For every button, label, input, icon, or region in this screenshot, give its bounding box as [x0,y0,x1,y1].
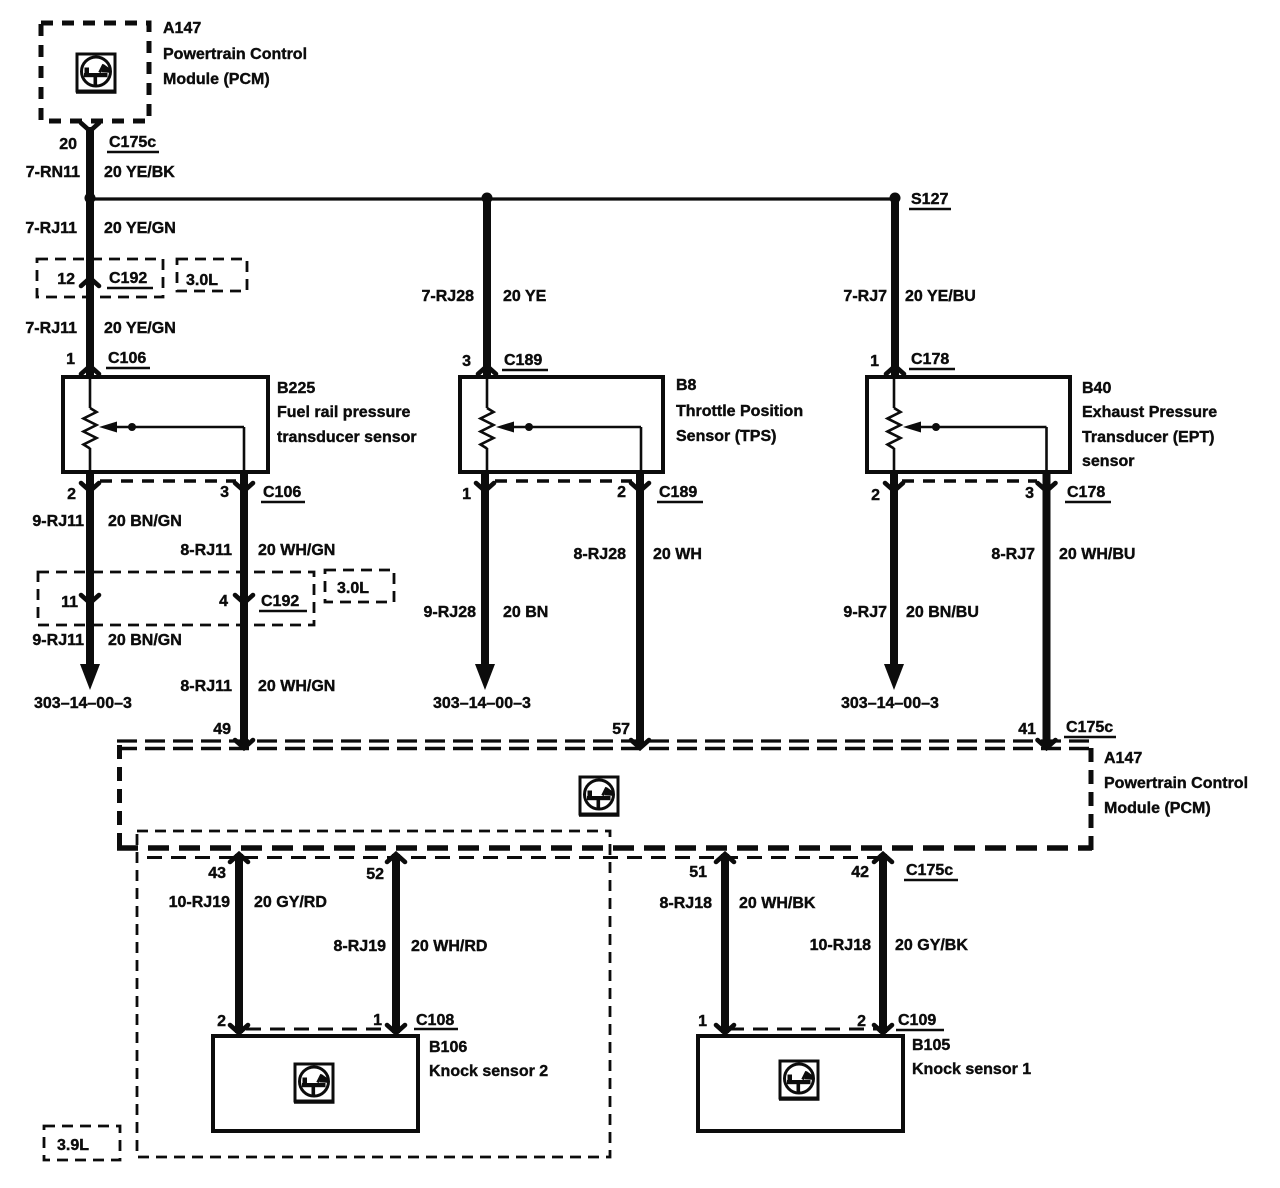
sensor B106 Knock sensor 2 box [213,1036,418,1131]
svg-text:Knock sensor 2: Knock sensor 2 [429,1063,548,1080]
svg-text:B8: B8 [676,377,697,394]
svg-text:3: 3 [1025,485,1034,502]
connector C175c pin 51 arrow (up) [716,854,734,862]
svg-text:9-RJ7: 9-RJ7 [843,604,887,621]
svg-text:1: 1 [66,351,75,368]
svg-text:20 YE/GN: 20 YE/GN [104,220,176,237]
svg-text:2: 2 [67,486,76,503]
svg-text:3: 3 [220,484,229,501]
svg-text:1: 1 [373,1012,382,1029]
svg-text:7-RJ11: 7-RJ11 [25,320,77,337]
connector C109 dashed line [729,1028,880,1031]
B225 internal lead from pin 1 [89,379,92,408]
connector C175c dashed line (lower row) [147,856,884,859]
ground terminal arrow right [884,664,904,690]
ground terminal arrow left [80,664,100,690]
svg-text:B40: B40 [1082,380,1111,397]
svg-text:C106: C106 [263,484,301,501]
svg-text:51: 51 [689,864,707,881]
svg-text:8-RJ11: 8-RJ11 [180,542,232,559]
module A147 Powertrain Control Module (top) [41,23,149,121]
knock sensor 1 component icon [779,1061,820,1099]
connector C178 pin 2 arrow (down) [885,483,903,491]
B40 wiper lead to pin 3 [1045,427,1048,470]
svg-text:20 WH/GN: 20 WH/GN [258,542,335,559]
svg-text:C175c: C175c [906,862,953,879]
connector C189 pin 1 arrow (down) [476,483,494,491]
B225 internal lead to pin 2 [89,448,92,470]
svg-text:8-RJ28: 8-RJ28 [574,546,627,563]
svg-text:C109: C109 [898,1012,936,1029]
svg-text:57: 57 [612,721,630,738]
svg-text:9-RJ11: 9-RJ11 [32,632,84,649]
module A147 Powertrain Control Module (lower) box [117,741,1092,850]
svg-text:S127: S127 [911,191,948,208]
svg-text:10-RJ18: 10-RJ18 [810,937,871,954]
wire 7-RN11 20 YE/BK vertical [86,127,94,198]
svg-text:A147: A147 [1104,750,1142,767]
svg-text:Exhaust Pressure: Exhaust Pressure [1082,404,1217,421]
svg-text:20 WH/BU: 20 WH/BU [1059,546,1135,563]
svg-text:8-RJ18: 8-RJ18 [660,895,713,912]
B8 internal lead to pin 1 [486,448,489,470]
connector C109 pin 1 arrow (down) [716,1025,734,1033]
svg-text:20 YE: 20 YE [503,288,547,305]
svg-text:303–14–00–3: 303–14–00–3 [34,695,132,712]
svg-text:Powertrain Control: Powertrain Control [163,46,307,63]
svg-text:12: 12 [57,271,75,288]
wire 8-RJ18 20 WH/BK [721,854,729,1033]
engine tag 3.0L box (lower) [325,570,394,602]
svg-text:1: 1 [462,486,471,503]
connector C189 dashed line (bottom of B8) [495,479,632,483]
svg-text:B105: B105 [912,1037,950,1054]
B225 wiper lead to pin 3 [243,427,246,470]
svg-text:transducer sensor: transducer sensor [277,429,417,446]
svg-text:C175c: C175c [1066,719,1113,736]
svg-text:C106: C106 [108,350,146,367]
svg-text:1: 1 [698,1013,707,1030]
wire 9-RJ28 20 BN [481,472,489,665]
connector C192 pin 11 arrow (down) [81,595,99,603]
svg-text:8-RJ19: 8-RJ19 [334,938,387,955]
svg-text:20 BN/GN: 20 BN/GN [108,513,182,530]
svg-text:20 WH/GN: 20 WH/GN [258,678,335,695]
connector C108 dashed line [246,1028,396,1031]
svg-text:2: 2 [617,484,626,501]
svg-text:43: 43 [208,865,226,882]
svg-text:3.0L: 3.0L [186,272,218,289]
svg-text:20 BN/GN: 20 BN/GN [108,632,182,649]
wire 9-RJ11 20 BN/GN [86,472,94,665]
svg-text:20 WH: 20 WH [653,546,702,563]
B40 wiper arrow [903,422,921,433]
svg-text:9-RJ11: 9-RJ11 [32,513,84,530]
svg-text:9-RJ28: 9-RJ28 [424,604,477,621]
wire 8-RJ19 20 WH/RD [392,854,400,1033]
svg-text:8-RJ11: 8-RJ11 [180,678,232,695]
pin 57 arrow into PCM (down) [631,740,649,748]
engine tag 3.0L box (upper) [177,259,247,291]
svg-text:C192: C192 [109,270,147,287]
pin 49 arrow into PCM (down) [235,740,253,748]
svg-text:20 GY/RD: 20 GY/RD [254,894,327,911]
svg-text:20 YE/BK: 20 YE/BK [104,164,175,181]
sensor B105 Knock sensor 1 box [698,1036,903,1131]
sensor B225 Fuel rail pressure transducer sensor box [63,377,268,472]
splice junction middle column [482,193,493,204]
connector C192 pin 4 arrow (down) [235,595,253,603]
svg-text:3: 3 [462,353,471,370]
svg-text:C175c: C175c [109,134,156,151]
svg-text:41: 41 [1018,721,1036,738]
svg-text:7-RJ7: 7-RJ7 [843,288,887,305]
svg-text:20 YE/BU: 20 YE/BU [905,288,976,305]
horizontal bus wire from splice to S127 [90,197,895,200]
svg-text:2: 2 [217,1013,226,1030]
svg-text:B106: B106 [429,1039,467,1056]
svg-text:Module (PCM): Module (PCM) [1104,800,1211,817]
svg-text:B225: B225 [277,380,315,397]
PCM component icon (top) [76,54,117,92]
svg-text:Throttle Position: Throttle Position [676,403,803,420]
wire 8-RJ7 20 WH/BU [1043,472,1051,745]
connector C106 pin 3 arrow (down) [235,483,253,491]
svg-text:3.9L: 3.9L [57,1137,89,1154]
connector C192 box (lower, pins 11 and 4) [38,572,314,625]
svg-text:303–14–00–3: 303–14–00–3 [841,695,939,712]
B40 potentiometer resistor element [888,408,901,449]
sensor B40 Exhaust Pressure Transducer box [867,377,1070,472]
wire 10-RJ19 20 GY/RD [235,854,243,1033]
svg-text:A147: A147 [163,20,201,37]
B225 potentiometer resistor element [84,408,97,449]
PCM component icon (lower) [579,777,620,815]
connector C178 pin 3 arrow (down) [1038,483,1056,491]
svg-text:Module (PCM): Module (PCM) [163,71,270,88]
engine group 3.9L dashed box [137,831,610,1157]
svg-text:C178: C178 [911,351,949,368]
svg-text:20 WH/RD: 20 WH/RD [411,938,487,955]
svg-text:20: 20 [59,136,77,153]
connector C108 pin 2 arrow (down) [230,1025,248,1033]
svg-text:20 WH/BK: 20 WH/BK [739,895,816,912]
svg-text:20 BN/BU: 20 BN/BU [906,604,979,621]
connector C106 pin 1 arrow (up) [81,366,99,374]
svg-text:2: 2 [857,1013,866,1030]
engine tag 3.9L label box [44,1126,120,1160]
svg-text:20 GY/BK: 20 GY/BK [895,937,968,954]
svg-text:Powertrain Control: Powertrain Control [1104,775,1248,792]
svg-text:2: 2 [871,487,880,504]
svg-text:C189: C189 [504,352,542,369]
connector C108 pin 1 arrow (down) [387,1025,405,1033]
connector C106 dashed line (bottom of B225) [100,479,236,483]
connector C189 pin 3 arrow (up) [478,366,496,374]
B40 internal lead from pin 1 [893,379,896,408]
connector C192 box (upper, pin 12) [37,259,163,297]
B8 internal lead from pin 3 [486,379,489,408]
pin 41 arrow into PCM (down) [1038,740,1056,748]
svg-text:20 BN: 20 BN [503,604,548,621]
B8 wiper lead to pin 2 [640,427,643,470]
wire 10-RJ18 20 GY/BK [879,854,887,1033]
svg-text:sensor: sensor [1082,453,1134,470]
B40 internal lead to pin 2 [893,448,896,470]
svg-text:7-RJ11: 7-RJ11 [25,220,77,237]
svg-text:52: 52 [366,866,384,883]
connector C175c pin 43 arrow (up) [230,854,248,862]
svg-text:Knock sensor 1: Knock sensor 1 [912,1061,1031,1078]
svg-text:49: 49 [213,721,231,738]
svg-text:C189: C189 [659,484,697,501]
svg-text:1: 1 [870,353,879,370]
svg-text:8-RJ7: 8-RJ7 [991,546,1035,563]
wire 8-RJ28 20 WH [636,472,644,745]
svg-text:C192: C192 [261,593,299,610]
wire 8-RJ11 20 WH/GN [240,472,248,745]
svg-text:C178: C178 [1067,484,1105,501]
svg-text:Sensor (TPS): Sensor (TPS) [676,428,776,445]
svg-text:Fuel rail pressure: Fuel rail pressure [277,404,410,421]
svg-text:20 YE/GN: 20 YE/GN [104,320,176,337]
svg-text:7-RN11: 7-RN11 [26,164,80,181]
connector C178 dashed line (bottom of B40) [902,479,1037,483]
connector C175c pin 20 arrow [81,123,99,131]
connector C192 arrow (up) [81,278,99,286]
connector C109 pin 2 arrow (down) [874,1025,892,1033]
svg-text:303–14–00–3: 303–14–00–3 [433,695,531,712]
B8 wiper arrow [496,422,514,433]
wire 7-RJ7 20 YE/BU [891,198,899,377]
B225 wiper arrow [99,422,117,433]
svg-text:4: 4 [219,593,228,610]
knock sensor 2 component icon [294,1064,335,1102]
connector C175c pin 52 arrow (up) [387,854,405,862]
svg-text:11: 11 [61,594,78,611]
connector C189 pin 2 arrow (down) [631,483,649,491]
wire 7-RJ28 20 YE [483,198,491,377]
connector C178 pin 1 arrow (up) [886,366,904,374]
svg-text:Transducer (EPT): Transducer (EPT) [1082,429,1214,446]
connector C175c pin 42 arrow (up) [874,854,892,862]
splice junction at left column [85,193,96,204]
svg-text:42: 42 [851,864,869,881]
wire 7-RJ11 20 YE/GN upper [86,198,94,377]
connector C106 pin 2 arrow (down) [81,483,99,491]
sensor B8 Throttle Position Sensor box [460,377,663,472]
wire 9-RJ7 20 BN/BU [890,472,898,665]
svg-text:10-RJ19: 10-RJ19 [169,894,230,911]
svg-text:3.0L: 3.0L [337,580,369,597]
svg-text:C108: C108 [416,1012,454,1029]
B8 potentiometer resistor element [481,408,494,449]
ground terminal arrow middle [475,664,495,690]
splice S127 junction [890,193,901,204]
svg-text:7-RJ28: 7-RJ28 [422,288,475,305]
